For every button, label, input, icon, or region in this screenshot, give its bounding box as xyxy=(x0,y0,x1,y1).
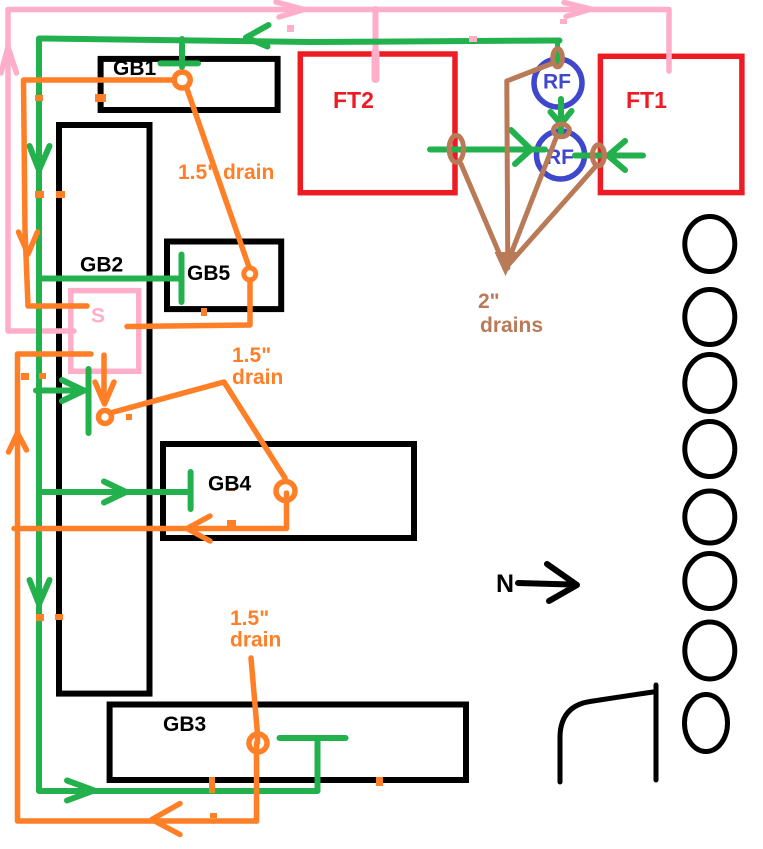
barrel ellipse 3 xyxy=(685,355,735,412)
svg-text:GB3: GB3 xyxy=(163,713,206,736)
orange drain GB5 down and into S xyxy=(127,280,250,327)
orange 1.5in drain GB2 to GB4 xyxy=(110,382,285,478)
svg-text:GB4: GB4 xyxy=(208,473,252,496)
grow bed GB4 xyxy=(163,444,414,538)
green inlet GB2 with right arrow xyxy=(36,369,89,433)
green inlet line to GB5 xyxy=(39,255,182,303)
svg-text:FT1: FT1 xyxy=(626,87,667,113)
brown 2in drain line from valve C to junction xyxy=(506,138,557,268)
svg-text:RF: RF xyxy=(543,71,571,94)
brown valve B above RF1 xyxy=(553,49,563,67)
orange p-trap circle at GB1 xyxy=(174,72,190,88)
green arrow down at y168 xyxy=(30,146,50,170)
orange GB2 drain stub with down arrow xyxy=(95,355,114,404)
orange drain GB4 down and left with arrow xyxy=(14,493,287,529)
brown 2in drain line from valve A to junction xyxy=(461,164,506,268)
grow bed GB1 xyxy=(101,59,278,110)
pink specks on lines xyxy=(287,25,294,32)
brown valve A on FT2 outlet xyxy=(449,135,463,162)
brown junction wedge xyxy=(495,252,517,276)
svg-text:2": 2" xyxy=(478,290,500,313)
greenhouse corner curve xyxy=(560,692,653,782)
svg-text:drain: drain xyxy=(232,366,283,389)
orange p-trap circle at GB4 xyxy=(276,482,295,501)
barrel ellipse 2 xyxy=(685,290,735,345)
orange drain GB3 riser xyxy=(251,658,258,743)
svg-text:N: N xyxy=(496,570,514,598)
pink arrow right at x591 xyxy=(564,3,591,17)
svg-text:1.5": 1.5" xyxy=(232,344,271,367)
brown 2in drain line from valve B elbow down to junction xyxy=(507,64,552,269)
barrel ellipse 1 xyxy=(685,217,735,272)
fish tank FT2 xyxy=(300,54,455,193)
orange p-trap circle at GB2 xyxy=(99,411,112,424)
wire orange drain: S up to GB1 xyxy=(24,80,175,306)
barrel ellipse 5 xyxy=(685,491,735,543)
brown valve C above RF2 xyxy=(553,124,569,137)
orange arrow up on left vertical xyxy=(9,433,27,452)
svg-text:GB2: GB2 xyxy=(80,254,123,277)
svg-text:drains: drains xyxy=(480,314,543,337)
wire pink supply loop top and left xyxy=(8,10,669,332)
green arrow down at y604 xyxy=(30,580,50,604)
green feed line into RF from FT2 side with right arrow xyxy=(430,130,545,164)
orange arrow down above S xyxy=(19,232,38,254)
green inlet GB3 tee xyxy=(280,738,346,791)
green inlet GB4 with right arrow xyxy=(39,472,191,509)
green inlet GB1 xyxy=(161,39,199,67)
green down arrow between RF circles xyxy=(551,99,572,132)
orange tick marks xyxy=(35,95,43,101)
pink arrow right at x304 xyxy=(276,2,304,17)
orange main return: left vertical and bottom xyxy=(18,354,257,821)
svg-text:S: S xyxy=(91,305,105,328)
orange p-trap circle at GB3 xyxy=(249,734,267,752)
svg-text:drain: drain xyxy=(230,629,281,652)
svg-text:1.5": 1.5" xyxy=(230,607,269,630)
grow bed GB2 xyxy=(59,125,150,694)
green arrow right on bottom line xyxy=(67,781,94,801)
radial filter RF2 xyxy=(537,131,585,179)
pink drop into FT2 xyxy=(373,9,379,78)
orange arrow left on bottom line xyxy=(152,804,180,835)
svg-text:1.5" drain: 1.5" drain xyxy=(178,161,274,184)
barrel ellipse 8 xyxy=(685,695,728,752)
orange 1.5in drain GB1 to GB5 xyxy=(187,88,250,268)
north arrow xyxy=(518,564,577,601)
svg-text:FT2: FT2 xyxy=(333,87,374,113)
green elbow down into valve B xyxy=(555,40,560,64)
orange p-trap circle at GB5 xyxy=(244,268,256,280)
radial filter RF1 xyxy=(534,59,582,107)
brown valve D on FT1 outlet xyxy=(592,145,604,166)
barrel ellipse 7 xyxy=(685,622,735,679)
barrel ellipse 6 xyxy=(685,554,735,609)
svg-text:GB5: GB5 xyxy=(187,262,231,285)
barrel ellipse 4 xyxy=(685,422,735,477)
wire green supply loop: top, left side, bottom xyxy=(39,39,560,792)
pink arrow up on left vertical xyxy=(1,47,17,73)
orange drop from GB3 trap to bottom line xyxy=(254,743,260,821)
fish tank FT1 xyxy=(600,56,742,192)
grow bed GB5 xyxy=(167,242,281,310)
grow bed GB3 xyxy=(110,705,466,781)
svg-text:GB1: GB1 xyxy=(113,57,157,80)
brown 2in drain line from valve D to junction xyxy=(506,166,597,268)
sump S box xyxy=(71,291,139,372)
green feed line from FT1 side with left arrow xyxy=(575,141,643,170)
green arrow left on top line xyxy=(246,25,269,47)
